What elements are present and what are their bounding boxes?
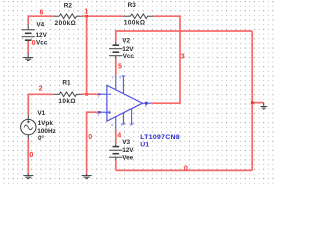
op-amp top pin 7 stub <box>115 75 117 90</box>
svg-text:1: 1 <box>84 8 88 16</box>
svg-text:100Hz: 100Hz <box>37 128 55 135</box>
battery V2 <box>115 42 117 46</box>
svg-text:12V: 12V <box>122 46 134 53</box>
ground under V1 <box>27 174 29 176</box>
op-amp output stub pin 6 <box>142 102 151 104</box>
svg-text:V2: V2 <box>122 38 130 45</box>
svg-text:200kΩ: 200kΩ <box>55 20 77 27</box>
svg-text:8: 8 <box>119 75 121 79</box>
svg-text:1: 1 <box>120 123 122 127</box>
ground right of rail <box>263 103 265 107</box>
svg-text:U1: U1 <box>140 142 149 149</box>
svg-text:LT1097CN8: LT1097CN8 <box>140 134 180 141</box>
svg-text:4: 4 <box>117 131 121 139</box>
op-amp bottom pin 5 stub <box>131 109 133 125</box>
svg-text:12V: 12V <box>36 32 48 39</box>
svg-text:4: 4 <box>111 123 113 127</box>
junction dot right rail/ground <box>251 101 254 104</box>
svg-text:12V: 12V <box>122 147 134 154</box>
op-amp bottom pin 4 stub <box>115 116 117 129</box>
wire op-amp pin4 to V3 top <box>115 130 117 144</box>
svg-text:V1: V1 <box>37 110 45 117</box>
svg-text:0: 0 <box>88 133 92 141</box>
node 1 junction dot <box>85 15 88 18</box>
wire stub to right ground <box>252 102 264 104</box>
svg-text:5: 5 <box>118 63 122 71</box>
svg-text:0°: 0° <box>38 134 45 142</box>
svg-text:V4: V4 <box>36 22 44 29</box>
battery V3 <box>115 143 117 146</box>
op-amp plus input stub <box>99 111 107 113</box>
wire V1 bottom to ground <box>27 139 29 174</box>
svg-text:100kΩ: 100kΩ <box>124 20 146 27</box>
svg-text:0: 0 <box>32 39 36 47</box>
resistor R3 <box>124 15 131 17</box>
resistor R2 <box>54 15 60 17</box>
svg-text:3: 3 <box>97 113 99 117</box>
wire V3 bottom to rail <box>115 160 117 170</box>
svg-text:2: 2 <box>39 84 43 92</box>
wire bottom ground rail <box>116 169 252 171</box>
svg-text:R3: R3 <box>128 2 137 9</box>
resistor R1 <box>54 93 60 95</box>
wire node1 down to R1 row <box>86 16 88 94</box>
svg-text:6: 6 <box>145 104 147 108</box>
svg-text:5: 5 <box>130 123 132 127</box>
wire R1 right to op-amp minus input <box>82 93 99 95</box>
op-amp U1 triangle <box>107 85 142 121</box>
svg-text:Vcc: Vcc <box>36 40 48 47</box>
svg-text:2: 2 <box>97 95 99 99</box>
wire R2 right to node 1 to R3 left <box>82 15 124 17</box>
ground under plus-input wire <box>86 174 88 176</box>
op-amp minus input stub <box>99 93 107 95</box>
wire right vertical ground rail <box>251 31 253 170</box>
wire V2 top to ground rail <box>116 31 252 42</box>
wire R3 right to corner then down to op-amp output <box>151 16 180 103</box>
svg-text:R1: R1 <box>62 79 71 86</box>
op-amp bottom pin 1 stub <box>122 113 124 124</box>
svg-text:1Vpk: 1Vpk <box>38 120 54 127</box>
svg-text:0: 0 <box>29 151 33 159</box>
ground under V4 <box>27 53 29 57</box>
battery V4 <box>27 25 29 30</box>
svg-text:R2: R2 <box>64 3 73 10</box>
svg-text:Vcc: Vcc <box>123 53 135 60</box>
junction dot at R1 row <box>85 93 88 96</box>
svg-text:3: 3 <box>181 52 185 60</box>
wire V1 to R1 row <box>28 94 54 115</box>
wire top rail V4 to R2 <box>28 16 54 24</box>
svg-text:V3: V3 <box>122 139 130 146</box>
svg-text:0: 0 <box>184 164 188 172</box>
wire V4 bottom to ground <box>27 40 29 54</box>
svg-text:10kΩ: 10kΩ <box>58 98 76 105</box>
svg-text:Vee: Vee <box>122 154 133 161</box>
op-amp top pin 8 stub <box>122 76 124 94</box>
svg-text:6: 6 <box>40 8 44 16</box>
wire op-amp plus input to ground <box>87 112 99 174</box>
wire V2 bottom to op-amp pin7 <box>115 59 117 76</box>
source V1 <box>27 115 29 119</box>
svg-text:7: 7 <box>112 75 114 79</box>
